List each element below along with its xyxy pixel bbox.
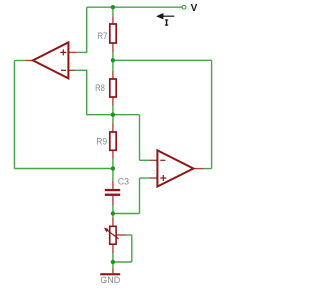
svg-text:2: 2 bbox=[69, 62, 72, 68]
pin U1 output lead bbox=[26, 60, 34, 62]
pin R9 bottom lead bbox=[112, 150, 114, 158]
svg-text:V: V bbox=[191, 3, 198, 14]
svg-text:GND: GND bbox=[100, 275, 121, 285]
op-amp U1 minus symbol bbox=[61, 69, 66, 71]
pin U1 +input lead bbox=[68, 51, 76, 53]
pin R8 top lead bbox=[112, 71, 114, 79]
capacitor C3 bottom plate bbox=[105, 194, 120, 196]
wire node D horizontal y=213.5 bbox=[113, 213, 140, 215]
terminal V open circle bbox=[182, 5, 186, 9]
wire U1 output horizontal bbox=[14, 60, 25, 62]
junction node C (R9/C3) bbox=[111, 166, 115, 170]
label I bbox=[165, 19, 168, 25]
pin R7 bottom lead bbox=[112, 43, 114, 52]
junction node E (RV1/GND) bbox=[111, 260, 115, 264]
wire U2 output bbox=[204, 168, 212, 170]
wire node B horizontal y=114.7 bbox=[86, 114, 139, 116]
wire chain segment above R7 bbox=[112, 7, 114, 16]
pin RV1 top lead bbox=[112, 218, 114, 227]
wire RV1 wiper horizontal bbox=[126, 234, 132, 236]
op-amp U1 plus symbol bbox=[60, 49, 66, 55]
svg-text:R7: R7 bbox=[97, 31, 107, 42]
wire chain segment R9 to node C bbox=[112, 159, 114, 169]
wire wiper return y=262 bbox=[113, 261, 132, 263]
junction node D (C3/RV1) bbox=[111, 211, 115, 215]
wire chain segment RV1 to node E bbox=[112, 253, 114, 262]
pin U1 -input lead bbox=[68, 69, 75, 71]
pin U2 +input lead bbox=[149, 177, 157, 179]
wire left-top vertical x=86.7 bbox=[86, 7, 88, 52]
wire feedback top y=60.3 bbox=[113, 59, 212, 61]
pin R9 top lead bbox=[112, 124, 114, 133]
svg-text:R9: R9 bbox=[96, 137, 107, 148]
junction node B (R8/R9) bbox=[111, 113, 115, 117]
wire chain segment node D to RV1 bbox=[112, 214, 114, 218]
current arrow I bbox=[163, 15, 175, 17]
resistor R8 body bbox=[110, 79, 116, 97]
pin C3 top lead bbox=[112, 181, 114, 189]
pin R8 bottom lead bbox=[112, 97, 114, 106]
potentiometer RV1 body bbox=[110, 226, 116, 244]
wire chain segment R7 to node A bbox=[112, 52, 114, 60]
capacitor C3 top plate bbox=[105, 189, 120, 191]
potentiometer RV1 wiper arrow bbox=[107, 230, 118, 239]
wire left rail horizontal y=168.5 bbox=[14, 168, 113, 170]
wire left rail vertical x=14.4 bbox=[13, 61, 15, 169]
pin RV1 wiper lead bbox=[116, 234, 126, 236]
pin U2 output lead bbox=[194, 168, 204, 170]
wire U2 +input horizontal bbox=[140, 177, 150, 179]
op-amp U2 (right, pointing right) bbox=[157, 150, 193, 186]
pin U2 -input lead bbox=[149, 159, 157, 161]
svg-text:3: 3 bbox=[152, 170, 155, 176]
ground symbol bar bbox=[100, 273, 120, 275]
pin C3 bottom lead bbox=[112, 196, 114, 205]
wire U2 -input horizontal bbox=[140, 159, 150, 161]
op-amp U2 minus symbol bbox=[160, 159, 165, 161]
wire chain segment C3 to node D bbox=[112, 205, 114, 214]
svg-text:3: 3 bbox=[69, 45, 72, 51]
wire chain segment node A to R8 bbox=[112, 60, 114, 71]
wire left-mid vertical x=86.7 bbox=[86, 70, 88, 115]
op-amp U1 (left, pointing left) bbox=[33, 42, 69, 78]
wire x=139.5 vertical +input to node D bbox=[139, 178, 141, 214]
wire chain segment node C to C3 bbox=[112, 169, 114, 181]
wire chain segment R8 to node B bbox=[112, 106, 114, 115]
pin RV1 bottom lead bbox=[112, 244, 114, 253]
wire top rail y=7 bbox=[87, 6, 182, 8]
svg-text:C3: C3 bbox=[118, 177, 129, 187]
pin ground lead bbox=[112, 269, 114, 274]
resistor R9 body bbox=[110, 132, 116, 150]
junction node A (R7/R8) bbox=[111, 58, 115, 62]
pin R7 top lead bbox=[112, 16, 114, 24]
resistor R7 body bbox=[110, 24, 116, 43]
wire chain segment node B to R9 bbox=[112, 115, 114, 124]
junction node top rail bbox=[111, 5, 115, 9]
wire feedback right vertical x=211.6 bbox=[211, 60, 213, 168]
wire U1 -input bbox=[76, 69, 88, 71]
op-amp U2 plus symbol bbox=[160, 175, 166, 181]
wire wiper vertical x=131.8 bbox=[131, 235, 133, 262]
wire U1 +input bbox=[77, 51, 88, 53]
svg-text:2: 2 bbox=[152, 153, 155, 159]
wire node E to ground bbox=[112, 262, 114, 269]
svg-text:R8: R8 bbox=[95, 83, 105, 94]
wire x=139.5 vertical to U2 -input bbox=[139, 115, 141, 161]
